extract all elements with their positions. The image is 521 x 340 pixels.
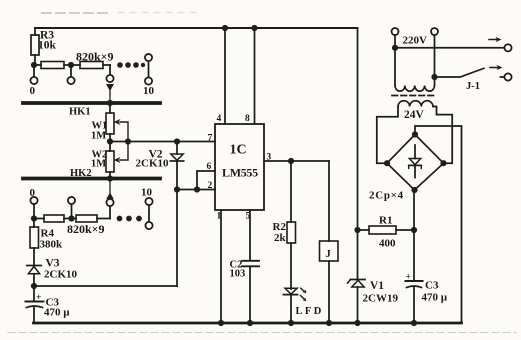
svg-text:C3: C3 <box>425 280 439 292</box>
svg-text:HK1: HK1 <box>69 107 91 118</box>
node: bridge top vertex <box>412 131 418 137</box>
capacitor C3 470µ (left, electrolytic) <box>26 286 71 323</box>
wire: to output terminal <box>395 47 505 49</box>
terminal: mains 220V right <box>431 28 438 77</box>
switch J-1 <box>460 68 512 92</box>
terminal pair 10 (bottom) <box>141 187 153 230</box>
resistor: 820k chain segment 2 (top) <box>74 62 110 69</box>
plug: top selector tap with arrow to HK1 <box>106 65 114 102</box>
arrow: output top <box>489 37 502 42</box>
node: V3 cathode <box>31 283 37 289</box>
zener V1 2CW19 <box>348 280 399 324</box>
wire: rail to zener <box>357 230 359 280</box>
transformer secondary winding 24V <box>398 101 433 107</box>
svg-text:470 µ: 470 µ <box>422 292 448 304</box>
junction: W1 on HK1 <box>107 100 113 106</box>
wire: secondary right lead <box>433 107 452 164</box>
svg-text:10: 10 <box>143 85 155 97</box>
node: pin 8 on rail <box>251 25 257 31</box>
wire: pin 8 to rail <box>254 28 256 124</box>
node: bridge right vertex <box>440 160 446 166</box>
op-amp U1: timer IC LM555 <box>215 124 264 210</box>
wire: pin 4 to rail <box>224 28 226 124</box>
node: bridge left vertex <box>384 160 390 166</box>
potentiometer W2 1M <box>91 142 128 179</box>
LED LFD <box>284 288 324 323</box>
node: bottom chain tap 1 <box>68 197 75 222</box>
node: line output tap <box>392 45 398 51</box>
resistor: 820k chain segment 2 (bottom) <box>75 215 111 222</box>
junction: V1 on ground <box>354 320 360 326</box>
svg-text:10: 10 <box>141 187 153 199</box>
svg-text:5: 5 <box>246 212 251 222</box>
wire: pin 3 to relay coil <box>328 161 330 241</box>
svg-text:1C: 1C <box>230 143 247 158</box>
node: R1 right / bridge minus <box>411 227 417 233</box>
svg-text:1M: 1M <box>91 131 106 142</box>
wire: pin 1 to ground <box>220 210 222 323</box>
relay J <box>320 241 339 323</box>
wire: pin 5 lead <box>249 210 251 261</box>
junction: pin1 on ground <box>218 320 224 326</box>
svg-text:2k: 2k <box>274 232 287 244</box>
node: V2 cathode / pin 2 <box>174 186 180 192</box>
svg-text:2CK10: 2CK10 <box>136 158 170 170</box>
wire: top supply rail <box>35 27 358 29</box>
diode V2 2CK10 <box>136 138 184 189</box>
svg-text:820k×9: 820k×9 <box>67 222 105 236</box>
junction: LED on ground <box>288 320 294 326</box>
wire: secondary left lead <box>377 107 398 164</box>
svg-text:7: 7 <box>208 134 213 144</box>
svg-text:3: 3 <box>267 153 272 163</box>
potentiometer W1 1M <box>91 103 128 142</box>
svg-text:J: J <box>326 249 331 260</box>
node: switch feed <box>431 74 437 80</box>
svg-text:8: 8 <box>245 114 250 124</box>
wire: to switch <box>435 76 460 78</box>
resistor R2 2k <box>273 161 296 289</box>
busbar HK2 <box>23 168 160 179</box>
busbar HK1 <box>23 103 160 118</box>
svg-text:400: 400 <box>379 238 396 250</box>
svg-text:1M: 1M <box>91 159 106 170</box>
svg-text:24V: 24V <box>404 109 425 121</box>
svg-text:6: 6 <box>207 162 212 172</box>
wire: to V3 cathode node <box>34 285 177 287</box>
capacitor C2 103 <box>230 260 260 324</box>
transformer T primary winding <box>395 86 434 92</box>
junction: relay on ground <box>326 320 332 326</box>
diode symbol inside bridge <box>409 145 422 178</box>
arrow: output bottom <box>490 65 503 70</box>
svg-text:4: 4 <box>217 114 222 124</box>
wire: node down to C3 <box>413 230 415 281</box>
node: regulated rail / R1 left <box>354 227 360 233</box>
node: W1/W2 junction <box>107 138 113 144</box>
wire: primary leads <box>394 48 396 86</box>
svg-text:2CW19: 2CW19 <box>363 293 399 305</box>
transformer core <box>392 95 437 97</box>
ellipsis dots (bottom chain) <box>117 216 142 222</box>
terminal: output top <box>504 44 511 51</box>
svg-text:2: 2 <box>208 181 213 191</box>
resistor: 820k chain segment 1 (top) <box>34 62 68 69</box>
resistor: 820k chain segment 1 (bottom) <box>34 215 68 222</box>
resistor R3 10k <box>31 28 57 65</box>
node: bridge bottom vertex <box>411 187 417 193</box>
wire: pin 2 net <box>177 189 215 191</box>
svg-text:820k×9: 820k×9 <box>76 50 114 64</box>
node: bottom chain tap 0 <box>30 187 38 222</box>
wire: regulated supply drop <box>357 28 359 230</box>
wire: bridge bottom vertex to R1 node <box>413 190 415 230</box>
wire: ground rail <box>34 322 462 325</box>
diode V3 2CK10 <box>27 258 78 287</box>
wire: bridge plus output to ground rail <box>415 126 462 323</box>
svg-text:0: 0 <box>30 85 36 97</box>
svg-text:2Cp×4: 2Cp×4 <box>369 190 404 202</box>
svg-text:HK2: HK2 <box>70 168 92 179</box>
svg-text:220V: 220V <box>403 35 428 47</box>
node: pin 4 on rail <box>222 25 228 31</box>
faint scan smudge top <box>42 12 108 14</box>
junction: C2 on ground <box>247 320 253 326</box>
node: top chain tap 1 <box>67 62 74 84</box>
faint scan artifact line <box>8 332 516 334</box>
node: pin 3 tap <box>288 158 294 164</box>
wire: pin 6 loop to pin 2 <box>197 171 215 190</box>
resistor R1 400 <box>358 215 415 250</box>
wire: threshold net vertical drop <box>176 190 178 287</box>
ellipsis dots (top chain) <box>117 62 145 68</box>
svg-text:10k: 10k <box>38 40 57 52</box>
svg-text:V1: V1 <box>370 280 384 292</box>
svg-text:J-1: J-1 <box>466 81 480 92</box>
bridge rectifier 2Cp×4 diamond <box>387 135 444 191</box>
node: wiper join <box>125 138 131 144</box>
resistor R4 380k <box>30 219 63 266</box>
node: top chain tap 0 <box>30 62 38 97</box>
svg-text:470 µ: 470 µ <box>44 307 70 319</box>
svg-text:1: 1 <box>217 212 222 222</box>
terminal: mains 220V left <box>392 28 399 48</box>
junction: W2 on HK2 <box>107 175 113 181</box>
svg-text:103: 103 <box>230 269 246 280</box>
junction: C3 on ground <box>411 320 417 326</box>
terminal pair 10 (top) <box>143 54 155 97</box>
capacitor C3 470µ (right, electrolytic) <box>406 273 448 324</box>
wire: wiper bus to IC pin 7 <box>110 141 215 143</box>
node: pin6 to pin2 join <box>194 186 200 192</box>
svg-text:LFD: LFD <box>296 306 324 317</box>
svg-text:LM555: LM555 <box>222 166 258 180</box>
wire: pin 3 output <box>264 160 329 162</box>
svg-text:380k: 380k <box>40 239 64 251</box>
svg-text:2CK10: 2CK10 <box>44 269 78 281</box>
svg-text:R1: R1 <box>379 215 392 227</box>
plug: bottom selector tap with arrow to HK2 <box>106 180 113 219</box>
